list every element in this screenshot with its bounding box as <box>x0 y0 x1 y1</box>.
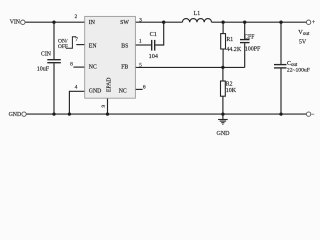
svg-text:GND: GND <box>9 112 22 118</box>
capacitor CIN plates <box>47 59 61 61</box>
svg-text:FB: FB <box>121 65 128 71</box>
capacitor CFF bottom lead to FB node <box>244 43 246 67</box>
wire SW to inductor <box>135 21 182 23</box>
on/off step waveform symbol <box>66 37 76 49</box>
resistor R2 top lead <box>222 67 224 81</box>
wire NC pin8 stub <box>73 66 84 68</box>
resistor R1 body <box>221 34 226 49</box>
node gnd Cout junction <box>279 112 282 115</box>
capacitor Cout top lead <box>280 22 282 64</box>
svg-text:2: 2 <box>75 14 78 20</box>
node FB divider junction <box>221 66 224 69</box>
svg-text:R1: R1 <box>226 37 233 43</box>
svg-text:BS: BS <box>121 43 128 49</box>
node Vout/R1 junction <box>221 21 224 24</box>
junction node dots <box>52 21 282 116</box>
node gnd EPAD junction <box>106 112 109 115</box>
svg-text:44.2K: 44.2K <box>226 47 242 53</box>
svg-text:10uF: 10uF <box>37 66 50 72</box>
node Vout/CFF junction <box>243 21 246 24</box>
wire top rail VIN to IN <box>25 21 84 23</box>
capacitor C1 plates <box>151 40 153 51</box>
ground symbol stub <box>222 114 224 119</box>
terminal GND left <box>22 112 26 116</box>
wire BS pin to C1 <box>135 44 151 46</box>
svg-text:IN: IN <box>89 20 96 26</box>
svg-text:−: − <box>311 112 314 118</box>
svg-text:1: 1 <box>139 38 142 44</box>
wire C1 to SW node <box>155 22 163 45</box>
wire inductor to Vout terminal <box>212 21 307 23</box>
svg-text:VIN: VIN <box>10 20 21 26</box>
svg-text:10K: 10K <box>226 88 237 94</box>
capacitor CFF top lead <box>244 22 246 39</box>
svg-text:GND: GND <box>89 89 102 95</box>
node SW/C1 junction <box>162 21 165 24</box>
capacitor CFF plates <box>240 39 250 41</box>
capacitor Cout plates <box>274 64 287 66</box>
svg-text:5: 5 <box>139 63 142 69</box>
svg-text:8: 8 <box>70 61 73 67</box>
svg-text:3: 3 <box>139 17 142 23</box>
svg-text:OFF: OFF <box>58 44 68 50</box>
svg-text:L1: L1 <box>194 11 201 17</box>
svg-text:GND: GND <box>217 131 231 137</box>
wire FB pin5 to divider node <box>135 66 244 68</box>
svg-text:22~100uF: 22~100uF <box>287 68 310 74</box>
terminal Vout <box>306 20 310 24</box>
svg-text:+: + <box>312 20 315 26</box>
svg-text:4: 4 <box>75 85 78 91</box>
svg-text:NC: NC <box>119 89 127 95</box>
terminal VIN <box>21 20 25 24</box>
wire EN pin stub <box>76 44 84 46</box>
svg-text:104: 104 <box>149 53 158 60</box>
node gnd pin4 junction <box>68 112 71 115</box>
terminal GND right <box>306 112 310 116</box>
capacitor Cout bottom lead <box>280 69 282 115</box>
resistor R1 top lead <box>222 22 224 33</box>
resistor R2 bottom lead <box>222 96 224 114</box>
svg-text:CFF: CFF <box>244 34 255 40</box>
node gnd R2 junction <box>221 112 224 115</box>
svg-text:EN: EN <box>89 43 98 49</box>
svg-text:SW: SW <box>120 20 129 26</box>
svg-text:9: 9 <box>101 104 107 107</box>
svg-text:7: 7 <box>75 37 78 43</box>
wire NC pin6 stub <box>135 88 142 90</box>
wire bottom ground rail <box>26 113 306 115</box>
svg-text:EPAD: EPAD <box>107 77 113 92</box>
inductor L1 winding <box>182 19 211 23</box>
svg-text:5V: 5V <box>299 40 307 46</box>
node Vout/Cout junction <box>279 21 282 24</box>
IC U1 body <box>85 16 136 98</box>
ground symbol bars <box>218 119 228 121</box>
node CIN/VIN junction <box>52 21 55 24</box>
resistor R2 body <box>221 81 226 96</box>
resistor R1 bottom lead <box>222 49 224 67</box>
capacitor CIN vertical wires <box>53 22 55 59</box>
svg-text:R2: R2 <box>226 82 233 88</box>
svg-text:Vout: Vout <box>298 29 310 37</box>
svg-text:NC: NC <box>89 65 97 71</box>
svg-text:C1: C1 <box>150 31 157 38</box>
wire EPAD pin9 to ground rail <box>107 98 109 114</box>
svg-text:100PF: 100PF <box>245 47 261 53</box>
wire GND pin4 to ground rail <box>69 91 84 114</box>
svg-text:6: 6 <box>143 84 146 90</box>
svg-text:CIN: CIN <box>41 51 52 57</box>
node gnd CIN junction <box>52 112 55 115</box>
